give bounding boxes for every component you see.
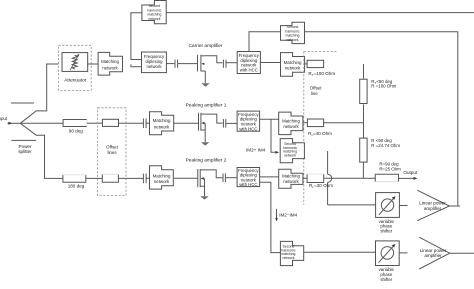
svg-text:network: network xyxy=(154,179,170,184)
wire HCC diplexer top tap xyxy=(249,32,281,52)
wire amp2 output to edge xyxy=(450,252,474,254)
svg-text:Attenuator: Attenuator xyxy=(64,78,87,84)
variable phase shifter 1 xyxy=(376,193,400,234)
wire harmonic block to right bus xyxy=(305,32,458,206)
matching network (peaking 1 output) xyxy=(279,112,303,135)
label IM2+IM4 xyxy=(246,147,266,152)
transmission line 2 (90deg 24.74 Ohm) xyxy=(360,138,367,162)
wire harmonic block to phase shifter 2 xyxy=(304,251,376,253)
svg-text:with HCC: with HCC xyxy=(240,68,258,73)
svg-text:line: line xyxy=(311,91,318,96)
op-amp linear power amplifier 1 xyxy=(417,190,449,221)
label Offset lines xyxy=(106,145,118,155)
svg-text:network: network xyxy=(286,38,298,42)
label TL1 xyxy=(371,79,396,89)
wire tap down to harmonic block (row3) xyxy=(260,182,281,252)
wire top harmonic block left lead down to diplexer xyxy=(131,13,142,67)
svg-text:network: network xyxy=(283,179,299,184)
op-amp linear power amplifier 2 xyxy=(419,237,450,269)
variable phase shifter 2 xyxy=(376,241,400,282)
wire matching to offset rect (row3) xyxy=(303,177,307,179)
svg-text:Peaking amplifier 2: Peaking amplifier 2 xyxy=(186,158,227,164)
delay line 90 deg xyxy=(63,120,87,134)
offset line (row2) xyxy=(307,119,323,127)
second harmonic matching network (top, U1) xyxy=(142,1,166,24)
svg-text:shifter: shifter xyxy=(380,228,392,233)
ground (peaking 1) xyxy=(201,142,209,145)
power splitter branches xyxy=(20,64,63,178)
wire drain jog (row3) xyxy=(204,170,222,178)
svg-text:network: network xyxy=(282,256,294,260)
wire offset to capacitor (row3) xyxy=(118,177,143,179)
capacitor row3 output xyxy=(223,173,225,182)
svg-text:network: network xyxy=(146,64,162,69)
wire phase shifter 2 to amplifier xyxy=(399,252,407,254)
wire matching to offset line (carrier) xyxy=(305,63,308,65)
wire bus mid xyxy=(363,104,365,138)
wire attenuator to matching network xyxy=(87,63,98,65)
wire with hop to bus junction (row3) xyxy=(324,177,364,179)
frequency diplexing network with HCC (carrier) xyxy=(237,52,260,74)
wire capacitor to carrier gate xyxy=(178,63,197,65)
attenuator (dashed enclosure) xyxy=(59,45,92,90)
rule line above power splitter xyxy=(11,139,36,141)
matching network (carrier input) xyxy=(98,52,122,75)
node Input label xyxy=(0,116,8,121)
capacitor (carrier drain DC block) xyxy=(223,60,226,68)
wire matching to offset rect (row2) xyxy=(303,122,308,124)
capacitor (carrier gate DC block) xyxy=(175,60,178,68)
second harmonic matching network (U4, bottom) xyxy=(280,241,303,265)
svg-text:Peaking amplifier 1: Peaking amplifier 1 xyxy=(186,102,227,108)
svg-text:network: network xyxy=(285,65,301,70)
wire capacitor to matching (row2) xyxy=(146,122,149,124)
svg-text:Input: Input xyxy=(0,116,8,121)
frequency diplexing network (carrier input) xyxy=(142,52,167,73)
wire row2 to bus junction xyxy=(324,122,364,124)
delay line 180 deg xyxy=(63,175,86,189)
svg-text:network: network xyxy=(283,124,299,129)
svg-text:Matching: Matching xyxy=(282,174,300,179)
svg-text:Matching: Matching xyxy=(101,59,119,64)
label Rx=40 Ohm xyxy=(308,131,332,137)
wire HCC to matching (row2) xyxy=(260,118,279,120)
wire input with arrowhead xyxy=(8,122,21,125)
wire HCC diplexer to matching network (carrier) xyxy=(260,62,280,64)
svg-text:Matching: Matching xyxy=(282,118,300,123)
label RT=100 Ohm xyxy=(308,71,335,77)
transistor peaking amplifier 2 xyxy=(198,169,205,196)
label Peaking amplifier 2 xyxy=(186,158,227,164)
wire HCC to matching (row3) xyxy=(260,176,279,178)
dashed offset lines box xyxy=(98,108,127,196)
resistor zigzag of attenuator xyxy=(72,55,77,69)
matching network (peaking 2 input) xyxy=(150,166,174,189)
wire capacitor to HCC diplexer (row2) xyxy=(226,122,237,124)
wire capacitor to HCC diplexer xyxy=(226,62,237,64)
matching network (peaking 2 output) xyxy=(279,169,303,188)
dashed offset line region xyxy=(304,52,338,206)
second harmonic matching network (carrier branch, U2) xyxy=(281,22,305,43)
label TL2 xyxy=(371,138,400,148)
offset line rect (row2) xyxy=(102,119,118,126)
label Power splitter xyxy=(18,144,32,154)
right combining bus xyxy=(363,64,365,79)
wire diplexer to capacitor xyxy=(166,63,174,65)
svg-text:Matching: Matching xyxy=(284,60,302,65)
svg-text:Output: Output xyxy=(403,170,418,175)
wire 90deg to offset xyxy=(87,122,103,124)
svg-text:network: network xyxy=(148,17,160,21)
wire IM tap arrow (row2) xyxy=(271,119,279,153)
wire 180deg to offset (row3) xyxy=(86,177,103,179)
svg-text:Matching: Matching xyxy=(153,118,171,123)
svg-text:with HCC: with HCC xyxy=(239,127,257,132)
svg-text:R=25 Ohm: R=25 Ohm xyxy=(379,166,401,171)
matching network (peaking 1 input) xyxy=(150,112,174,135)
wire carrier drain jog xyxy=(205,56,223,63)
svg-text:amplifier: amplifier xyxy=(424,253,442,258)
svg-text:90 deg: 90 deg xyxy=(69,129,83,134)
svg-text:shifter: shifter xyxy=(380,277,392,282)
capacitor row3 input xyxy=(143,174,146,184)
capacitor row2 input xyxy=(143,118,146,128)
arrow across attenuator xyxy=(70,55,79,70)
wire splitter middle xyxy=(20,122,63,124)
svg-text:R =24.74 Ohm: R =24.74 Ohm xyxy=(371,143,400,148)
svg-text:splitter: splitter xyxy=(18,149,32,154)
wire phase shifter 1 to amplifier xyxy=(399,205,407,207)
label RL=30 Ohm xyxy=(309,183,333,189)
ground (peaking 2) xyxy=(200,196,208,199)
wire splitter top diagonal xyxy=(20,64,58,123)
wire matching to gate (row2) xyxy=(174,122,199,124)
wire drain jog (row2) xyxy=(205,114,223,123)
wire capacitor to matching (row3) xyxy=(146,177,149,179)
wire to variable phase shifter 1 xyxy=(328,204,376,206)
wire capacitor to HCC diplexer (row3) xyxy=(225,177,237,179)
capacitor row2 output xyxy=(223,119,225,128)
second harmonic matching network (U3, mid) xyxy=(280,139,304,163)
wire bus bottom xyxy=(363,162,375,178)
svg-text:network: network xyxy=(284,153,296,157)
frequency diplexing network with HCC (peaking 1) xyxy=(237,111,260,131)
label IM2-IM4 xyxy=(279,213,297,218)
wire amp1 output xyxy=(449,205,460,207)
svg-text:with HCC: with HCC xyxy=(239,182,257,187)
svg-text:IM2−IM4: IM2−IM4 xyxy=(279,213,297,218)
offset line (row3) xyxy=(307,174,324,183)
label Carrier amplifier xyxy=(188,43,223,49)
label theta=90 R=25 xyxy=(379,162,401,172)
offset line rect (row3) xyxy=(102,174,118,182)
svg-text:Carrier amplifier: Carrier amplifier xyxy=(188,43,223,49)
svg-text:lines: lines xyxy=(107,150,117,155)
transistor peaking amplifier 1 xyxy=(199,113,206,142)
wire offset to capacitor (row2) xyxy=(119,122,144,124)
wire splitter bottom diagonal xyxy=(20,123,63,178)
offset line (carrier) xyxy=(307,60,324,67)
matching network (carrier output) xyxy=(281,53,305,77)
wire stub vertical through hop xyxy=(328,151,332,205)
output transmission line xyxy=(375,174,398,181)
svg-text:IM2+ IM4: IM2+ IM4 xyxy=(246,147,266,152)
svg-text:network: network xyxy=(154,124,170,129)
svg-text:180 deg: 180 deg xyxy=(68,184,85,189)
wire output with arrowhead xyxy=(399,177,418,180)
svg-text:Matching: Matching xyxy=(153,173,171,178)
label Peaking amplifier 1 xyxy=(186,102,227,108)
ground (carrier) xyxy=(201,83,209,87)
label Output xyxy=(403,170,418,175)
wire matching to gate (row3) xyxy=(174,177,198,179)
svg-text:amplifier: amplifier xyxy=(424,206,442,211)
svg-text:R =100 Ohm: R =100 Ohm xyxy=(371,84,396,89)
rule line top-left xyxy=(11,102,34,104)
label Offset line xyxy=(310,86,322,96)
frequency diplexing network with HCC (peaking 2) xyxy=(237,168,260,188)
transistor carrier amplifier xyxy=(198,55,206,83)
transmission line 1 (90deg 100 Ohm) xyxy=(360,79,367,103)
svg-text:network: network xyxy=(102,65,118,70)
arrow annotation IM flow down xyxy=(275,209,278,222)
wire top harmonic block right lead to image edge xyxy=(166,12,474,14)
